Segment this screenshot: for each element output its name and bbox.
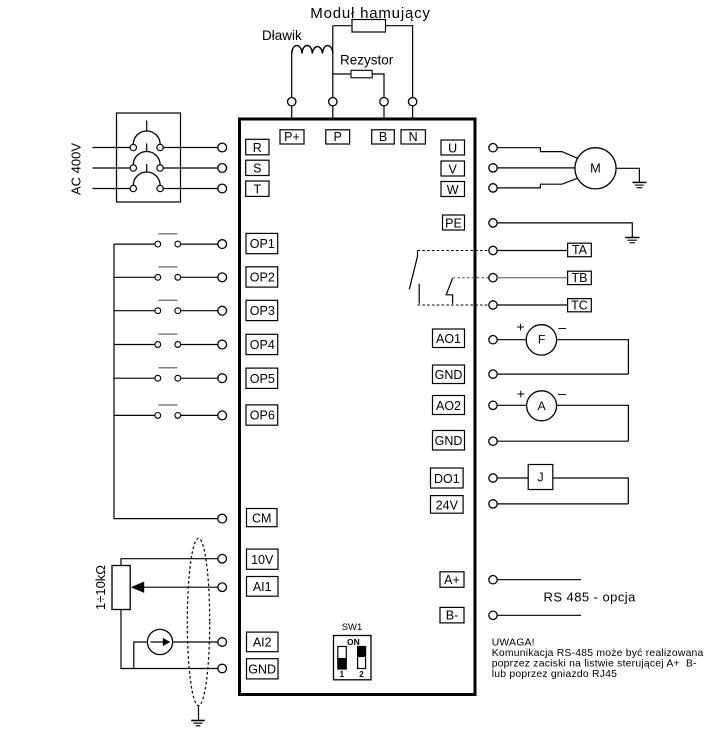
terminal box S xyxy=(246,160,269,176)
svg-text:24V: 24V xyxy=(436,498,459,512)
terminal PE xyxy=(489,219,497,227)
svg-text:GND: GND xyxy=(248,663,276,677)
wire T left xyxy=(93,188,131,190)
terminal B- xyxy=(489,611,497,619)
wire TB xyxy=(497,277,567,279)
terminal DO1 xyxy=(489,474,497,482)
terminal box OP3 xyxy=(246,300,278,320)
svg-text:2: 2 xyxy=(359,670,364,679)
svg-text:AI2: AI2 xyxy=(253,636,272,650)
svg-text:10V: 10V xyxy=(251,553,274,567)
terminal R xyxy=(218,143,227,152)
svg-text:+: + xyxy=(517,319,525,335)
terminal GND right1 xyxy=(489,370,497,378)
svg-text:AC 400V: AC 400V xyxy=(68,143,83,195)
svg-text:AO1: AO1 xyxy=(436,332,461,346)
svg-text:SW1: SW1 xyxy=(342,622,363,633)
svg-text:OP3: OP3 xyxy=(250,304,275,318)
wire V to motor xyxy=(497,167,575,169)
wire PE to ground xyxy=(497,223,632,237)
svg-text:A: A xyxy=(537,399,546,413)
note UWAGA xyxy=(492,638,704,681)
switch OP2 xyxy=(114,267,218,280)
contactor pole 3 xyxy=(130,172,163,192)
svg-text:CM: CM xyxy=(252,511,271,525)
contactor box xyxy=(117,113,181,202)
meter F xyxy=(517,319,567,356)
relay J xyxy=(528,465,553,490)
wire T right xyxy=(163,188,218,190)
terminal 10V xyxy=(218,554,227,563)
wire current source left xyxy=(134,642,148,669)
wire OP bus xyxy=(114,244,218,518)
ground PE xyxy=(625,238,639,243)
wire 24V xyxy=(497,503,628,505)
svg-text:–: – xyxy=(558,385,566,401)
wire S right xyxy=(163,167,218,169)
terminal box B xyxy=(372,130,395,144)
wire xyxy=(333,73,351,75)
switch OP1 xyxy=(114,234,218,247)
svg-text:Komunikacja RS-485 może być re: Komunikacja RS-485 może być realizowana xyxy=(492,648,704,659)
wire A meter to GND xyxy=(556,405,628,441)
terminal V xyxy=(489,164,497,172)
terminal box A+ xyxy=(440,572,464,588)
terminal box V xyxy=(441,161,465,176)
terminal box 24V xyxy=(431,496,464,514)
svg-text:–: – xyxy=(558,319,566,335)
terminal GND left xyxy=(218,664,227,673)
svg-text:TC: TC xyxy=(571,298,588,312)
terminal TC xyxy=(489,301,497,309)
terminal box AI2 xyxy=(247,632,279,652)
terminal OP3 xyxy=(218,306,227,315)
wire TA dashed xyxy=(418,250,489,252)
terminal OP1 xyxy=(218,240,227,249)
terminal box TA xyxy=(568,243,592,257)
svg-text:poprzez zaciski na listwie ste: poprzez zaciski na listwie sterującej A+… xyxy=(492,659,697,670)
svg-text:R: R xyxy=(253,141,262,155)
terminal box OP4 xyxy=(246,334,278,354)
potentiometer body xyxy=(112,566,130,610)
resistor braking module xyxy=(352,20,386,33)
wire stub P+ xyxy=(291,106,293,118)
wire pot bottom to GND xyxy=(121,610,218,669)
wire TA xyxy=(497,250,567,252)
terminal box T xyxy=(246,181,269,197)
svg-text:TA: TA xyxy=(572,243,588,257)
svg-text:J: J xyxy=(537,471,543,485)
wire xyxy=(372,74,384,98)
terminal box TB xyxy=(568,271,592,285)
svg-text:OP2: OP2 xyxy=(250,271,275,285)
terminal box GND left xyxy=(247,659,279,679)
terminal OP5 xyxy=(218,374,227,383)
terminal TB xyxy=(489,274,497,282)
terminal box R xyxy=(246,139,269,155)
inverter main box xyxy=(240,119,476,695)
terminal AI2 xyxy=(218,638,227,647)
svg-text:DO1: DO1 xyxy=(434,472,460,486)
svg-text:M: M xyxy=(590,160,601,175)
svg-text:T: T xyxy=(253,183,261,197)
terminal box OP1 xyxy=(246,233,278,253)
terminal box OP2 xyxy=(246,267,278,287)
switch OP6 xyxy=(114,405,218,418)
wire motor to ground xyxy=(616,168,639,182)
svg-text:Rezystor: Rezystor xyxy=(340,53,394,68)
svg-text:AO2: AO2 xyxy=(436,399,461,413)
relay contact blade TA xyxy=(409,251,417,290)
terminal box P+ xyxy=(280,130,304,144)
terminal AO2 xyxy=(489,401,497,409)
wire R right xyxy=(163,147,218,149)
inductor Dlawik xyxy=(292,46,333,54)
contactor linkage xyxy=(146,121,148,173)
terminal box B- xyxy=(440,607,464,623)
resistor Rezystor xyxy=(351,70,372,78)
wire AO1 to meter xyxy=(497,339,526,341)
relay contact stub TC xyxy=(418,284,420,304)
ground shield xyxy=(191,721,205,726)
terminal box OP6 xyxy=(246,405,278,425)
wire A+ xyxy=(497,579,581,581)
wire xyxy=(332,26,334,98)
terminal box OP5 xyxy=(246,368,278,388)
svg-text:RS 485 - opcja: RS 485 - opcja xyxy=(544,590,637,605)
terminal box 10V xyxy=(247,549,279,569)
terminal AO1 xyxy=(489,336,497,344)
wire B- xyxy=(497,614,581,616)
terminal U xyxy=(489,144,497,152)
terminal OP6 xyxy=(218,411,227,420)
ground motor xyxy=(632,182,646,187)
wire AI1 wiper xyxy=(144,586,218,588)
svg-text:GND: GND xyxy=(435,368,463,382)
wire AO2 to meter xyxy=(497,404,527,406)
wire 10V xyxy=(121,559,218,566)
svg-text:V: V xyxy=(449,162,458,176)
wire F meter to GND xyxy=(557,340,628,374)
motor M xyxy=(575,148,616,189)
terminal W xyxy=(489,184,497,192)
terminal box N xyxy=(401,130,425,144)
svg-text:F: F xyxy=(538,333,546,347)
svg-text:1÷10kΩ: 1÷10kΩ xyxy=(93,565,108,610)
svg-text:OP6: OP6 xyxy=(250,409,275,423)
svg-text:B-: B- xyxy=(446,608,459,622)
svg-text:Dławik: Dławik xyxy=(262,28,302,43)
terminal CM xyxy=(218,514,227,523)
contactor pole 2 xyxy=(130,152,163,172)
wire xyxy=(386,26,413,98)
svg-text:1: 1 xyxy=(340,670,345,679)
terminal box GND right2 xyxy=(433,431,465,451)
wire AI2 xyxy=(173,641,218,643)
svg-text:S: S xyxy=(253,162,261,176)
wire U to motor xyxy=(497,148,578,159)
wire S left xyxy=(93,167,131,169)
svg-text:W: W xyxy=(447,183,459,197)
switch OP4 xyxy=(114,334,218,347)
svg-text:P: P xyxy=(334,130,342,144)
potentiometer wiper arrow xyxy=(131,582,144,593)
wire xyxy=(291,54,293,98)
svg-text:AI1: AI1 xyxy=(253,580,272,594)
terminal circle 3 xyxy=(380,98,388,106)
wire TB dashed xyxy=(453,277,489,279)
wire stub B xyxy=(383,106,385,118)
contactor pole 1 xyxy=(130,131,163,151)
svg-text:OP4: OP4 xyxy=(250,338,275,352)
terminal S xyxy=(218,164,227,173)
terminal box PE xyxy=(443,215,465,230)
wire W to motor xyxy=(497,178,578,188)
terminal OP2 xyxy=(218,273,227,282)
terminal box CM xyxy=(247,509,278,527)
terminal OP4 xyxy=(218,340,227,349)
terminal circle 1 xyxy=(288,98,296,106)
svg-text:TB: TB xyxy=(572,271,588,285)
terminal box U xyxy=(441,140,465,155)
svg-text:+: + xyxy=(517,385,525,401)
current source xyxy=(147,629,172,654)
meter A xyxy=(517,385,566,421)
terminal AI1 xyxy=(218,583,227,592)
wire J to 24V xyxy=(553,478,629,504)
terminal box AO1 xyxy=(433,329,465,348)
svg-text:PE: PE xyxy=(445,216,462,230)
svg-text:OP5: OP5 xyxy=(250,372,275,386)
wire xyxy=(333,25,352,27)
wire DO1 to relay J xyxy=(497,477,528,479)
terminal TA xyxy=(489,246,497,254)
terminal A+ xyxy=(489,576,497,584)
terminal box P xyxy=(326,130,350,144)
terminal box GND right1 xyxy=(433,365,465,384)
svg-text:ON: ON xyxy=(347,637,360,647)
wire TC xyxy=(497,304,567,306)
svg-text:GND: GND xyxy=(435,434,463,448)
svg-text:OP1: OP1 xyxy=(250,237,275,251)
terminal circle 4 xyxy=(408,98,416,106)
svg-text:B: B xyxy=(379,130,387,144)
cable shield ellipse xyxy=(187,538,209,705)
terminal 24V xyxy=(489,500,497,508)
terminal box AO2 xyxy=(433,396,465,415)
terminal box TC xyxy=(568,298,592,312)
terminal box W xyxy=(441,182,465,197)
wire stub N xyxy=(412,106,414,118)
terminal box DO1 xyxy=(431,468,464,488)
switch OP3 xyxy=(114,300,218,313)
terminal GND right2 xyxy=(489,437,497,445)
svg-text:P+: P+ xyxy=(284,130,300,144)
wire shield tail xyxy=(198,706,200,720)
wire R left xyxy=(93,147,131,149)
terminal T xyxy=(218,184,227,193)
dip switch SW1 xyxy=(334,636,372,680)
terminal box AI1 xyxy=(247,577,279,597)
svg-text:N: N xyxy=(409,130,418,144)
wire GND right2 xyxy=(497,440,628,442)
svg-text:lub poprzez gniazdo RJ45: lub poprzez gniazdo RJ45 xyxy=(492,669,617,680)
svg-text:UWAGA!: UWAGA! xyxy=(492,638,535,649)
terminal circle 2 xyxy=(329,98,337,106)
svg-text:A+: A+ xyxy=(444,573,460,587)
switch OP5 xyxy=(114,368,218,381)
wire TC dashed xyxy=(418,304,489,306)
wire stub P xyxy=(332,106,334,118)
relay contact blade TB xyxy=(446,278,452,304)
svg-text:U: U xyxy=(448,141,457,155)
wire GND right1 xyxy=(497,373,628,375)
